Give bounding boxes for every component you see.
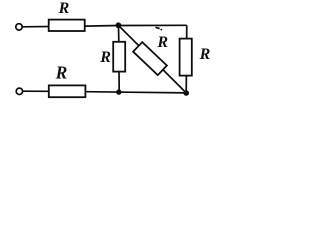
svg-text:R: R [199, 46, 211, 63]
svg-text:R: R [55, 62, 68, 82]
svg-text:R: R [99, 49, 111, 66]
svg-text:R: R [58, 0, 70, 17]
svg-text:R: R [156, 34, 168, 51]
